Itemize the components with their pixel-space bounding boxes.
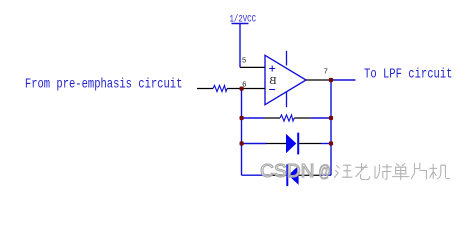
- op-amp top power stub: [286, 51, 288, 66]
- 机: [430, 164, 450, 179]
- svg-text:5: 5: [242, 56, 246, 65]
- 师: [375, 165, 391, 180]
- junction dot left diode branch: [240, 141, 244, 145]
- feedback resistor zigzag: [280, 115, 294, 121]
- watermark chinese 汪老师单片机 (pseudo strokes): [335, 163, 450, 179]
- junction dot right resistor branch: [329, 116, 333, 120]
- label To LPF circuit: [364, 66, 453, 82]
- svg-text:To LPF circuit: To LPF circuit: [364, 66, 453, 82]
- diode D1 branch (pointing right): [242, 133, 332, 155]
- 老: [356, 164, 370, 180]
- op-amp minus input marker: [269, 89, 275, 91]
- 片: [411, 163, 426, 179]
- diode D2 triangle: [288, 166, 298, 185]
- pin 7 (output): [306, 67, 331, 80]
- svg-text:From pre-emphasis circuit: From pre-emphasis circuit: [25, 76, 183, 92]
- junction dot left resistor branch: [240, 116, 244, 120]
- pin 6: [242, 79, 266, 88]
- wire left vertical (pin6 node down): [241, 89, 243, 176]
- resistor R-in (series input): [197, 85, 242, 91]
- wire right vertical (output node down): [330, 80, 332, 175]
- diode D1 triangle: [286, 134, 296, 153]
- pin 5: [240, 56, 265, 68]
- op-amp plus input marker: [269, 66, 275, 72]
- svg-text:B: B: [269, 75, 276, 87]
- feedback resistor branch: [242, 115, 332, 121]
- svg-text:CSDN: CSDN: [260, 160, 314, 181]
- watermark CSDN @: [260, 160, 331, 181]
- diode D2 branch (pointing left, bottom): [242, 164, 332, 186]
- svg-text:7: 7: [324, 67, 328, 76]
- wire output to label: [331, 79, 356, 81]
- svg-text:@: @: [318, 161, 330, 180]
- junction dot pin6 node: [240, 87, 244, 91]
- diode D1 cathode bar: [297, 133, 299, 155]
- 单: [393, 164, 409, 180]
- diode D2 cathode bar: [286, 164, 288, 186]
- op-amp U1B: [265, 51, 306, 107]
- op-amp bottom power stub: [286, 92, 288, 107]
- power port 1/2VCC: [230, 14, 257, 68]
- label From pre-emphasis circuit: [25, 76, 183, 92]
- junction dot output node: [329, 78, 333, 82]
- 汪: [335, 165, 353, 177]
- junction dot right diode branch: [329, 141, 333, 145]
